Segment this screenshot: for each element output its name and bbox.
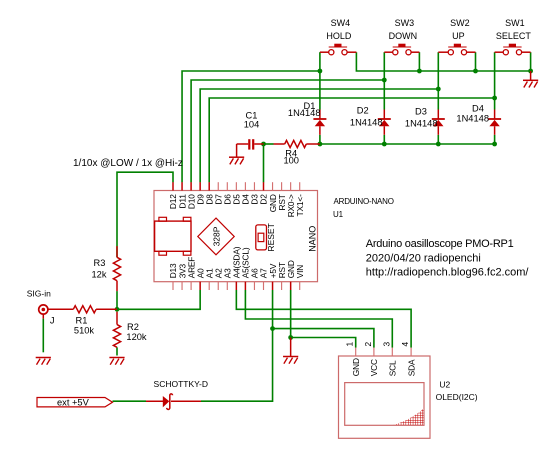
wire SW1 left stub xyxy=(495,51,504,53)
wire SW2 right stub xyxy=(467,51,476,53)
wire diode common rail to R4 xyxy=(320,143,495,145)
screen of U2 xyxy=(345,383,424,426)
svg-text:1/10x @LOW / 1x @Hi-z: 1/10x @LOW / 1x @Hi-z xyxy=(73,158,183,169)
pin stub bottom AREF xyxy=(190,282,192,290)
wire D11 to SW4 line xyxy=(182,71,320,182)
svg-text:R2: R2 xyxy=(127,322,139,332)
svg-text:U2: U2 xyxy=(439,380,450,390)
wire ext +5V tag to schottky xyxy=(113,400,147,402)
svg-text:D4: D4 xyxy=(472,104,484,114)
diode D1 1N4148 xyxy=(313,110,326,135)
diode D2 1N4148 xyxy=(378,110,391,135)
junction SW4/D11 node xyxy=(318,69,323,74)
svg-text:SCL: SCL xyxy=(388,360,398,376)
svg-text:104: 104 xyxy=(244,119,260,129)
junction GND/OLED-GND node xyxy=(288,335,293,340)
pin stub top D8 xyxy=(208,182,210,190)
diode SCHOTTKY-D xyxy=(146,394,201,410)
wire SW1 left terminal to D4 xyxy=(494,52,496,109)
wire SW2 left terminal to D3 xyxy=(437,52,439,109)
pin stub bottom A0 xyxy=(199,282,201,290)
pin stub top D6 xyxy=(226,182,228,190)
pin stub top GND xyxy=(272,182,274,190)
wire SW3 right stub xyxy=(411,51,419,53)
svg-text:TX1<-: TX1<- xyxy=(295,194,305,216)
svg-text:http://radiopench.blog96.fc2.c: http://radiopench.blog96.fc2.com/ xyxy=(366,267,530,279)
resistor R4 100 xyxy=(274,140,320,147)
junction SW2 right / ground rail xyxy=(473,69,478,74)
ground C1 xyxy=(229,157,244,164)
junction SW2/D9 node xyxy=(436,87,441,92)
connector J SIG-in jack xyxy=(39,305,48,319)
svg-text:2: 2 xyxy=(363,342,373,347)
pin stub top RST xyxy=(281,182,283,190)
junction D3/rail node xyxy=(436,142,441,147)
pin stub bottom GND xyxy=(290,282,292,290)
svg-text:SDA: SDA xyxy=(406,359,416,376)
resistor R1 510k xyxy=(48,306,117,313)
wire D4 anode to rail xyxy=(494,135,496,144)
ground J xyxy=(36,358,51,365)
pin stub top D4 xyxy=(244,182,246,190)
switch SW4 (HOLD) pushbutton xyxy=(329,44,347,55)
wire D3 anode to rail xyxy=(437,135,439,144)
pin stub bottom 3V3 xyxy=(181,282,183,290)
wire +5V pin to schottky diode xyxy=(201,290,273,401)
wire GND pin down xyxy=(290,290,292,338)
pin stub top RX0-&gt; xyxy=(290,182,292,190)
switch SW3 (DOWN) pushbutton xyxy=(393,44,411,55)
junction D4/rail node xyxy=(492,142,497,147)
USB connector of U1 xyxy=(155,217,191,255)
diode D3 1N4148 xyxy=(432,110,445,135)
wire SW4 right stub xyxy=(347,51,356,53)
switch SW2 (UP) pushbutton xyxy=(448,44,466,55)
wire A4 to OLED SDA xyxy=(236,290,411,348)
pin stub bottom A5(SCL) xyxy=(244,282,246,290)
wire SW3 right terminal to ground rail xyxy=(418,52,420,71)
wire R2 bottom to ground xyxy=(116,347,118,355)
svg-text:R1: R1 xyxy=(76,316,88,326)
pin stub U2 SDA xyxy=(410,348,412,356)
junction SW1/D8 node xyxy=(492,96,497,101)
svg-text:120k: 120k xyxy=(126,332,147,342)
capacitor C1 104 xyxy=(237,139,264,157)
junction D1/rail/R4 node xyxy=(318,142,323,147)
svg-text:OLED(I2C): OLED(I2C) xyxy=(436,392,478,402)
svg-text:SIG-in: SIG-in xyxy=(27,289,51,299)
ground rail of switches xyxy=(356,52,530,71)
svg-text:SELECT: SELECT xyxy=(496,31,532,41)
wire C1 junction to R4 xyxy=(264,143,274,145)
svg-text:ARDUINO-NANO: ARDUINO-NANO xyxy=(334,197,394,206)
wire SW1 right terminal to ground rail xyxy=(530,52,532,71)
wire D9 to SW2 line xyxy=(200,89,438,182)
wire D8 to SW1 line xyxy=(209,98,494,182)
pin stub bottom A6 xyxy=(253,282,255,290)
pin stub top D5 xyxy=(235,182,237,190)
pin stub U2 GND xyxy=(355,348,357,356)
pin stub top D3 xyxy=(253,182,255,190)
junction SIG node R1/R2/R3/A0 xyxy=(115,307,120,312)
svg-text:SW1: SW1 xyxy=(505,18,525,28)
junction C1/R4/D2 node xyxy=(261,142,266,147)
junction SW3/D10 node xyxy=(382,78,387,83)
svg-text:UP: UP xyxy=(452,31,465,41)
resistor R2 120k xyxy=(113,312,120,348)
svg-text:D2: D2 xyxy=(357,106,369,116)
svg-text:1N4148: 1N4148 xyxy=(456,114,489,124)
svg-text:GND: GND xyxy=(351,358,361,376)
pin stub top D12 xyxy=(172,182,174,190)
svg-text:Arduino oasilloscope PMO-RP1: Arduino oasilloscope PMO-RP1 xyxy=(366,238,514,250)
wire GND branch to OLED GND pin xyxy=(291,338,356,348)
wire SW4 left stub xyxy=(320,51,329,53)
wire C1 junction to pin D2 xyxy=(263,144,265,182)
pin stub bottom +5V xyxy=(272,282,274,290)
IC U1 ARDUINO-NANO body xyxy=(154,191,318,282)
resistor R3 12k xyxy=(113,246,120,291)
wire D2 anode to rail xyxy=(383,135,385,144)
pin stub bottom A1 xyxy=(208,282,210,290)
svg-text:HOLD: HOLD xyxy=(326,31,352,41)
wire SW2 left stub xyxy=(438,51,448,53)
pin stub top D10 xyxy=(190,182,192,190)
svg-text:U1: U1 xyxy=(333,210,344,219)
wire SW2 right terminal to ground rail xyxy=(475,52,477,71)
wire D1 anode to rail xyxy=(319,135,321,144)
pin stub top D11 xyxy=(181,182,183,190)
svg-text:RESET: RESET xyxy=(266,223,276,251)
display U2 OLED(I2C) body xyxy=(339,356,431,438)
ground at switch rail xyxy=(530,71,532,80)
wire +5V branch to OLED VCC xyxy=(273,329,374,348)
pin stub bottom A4(SDA) xyxy=(235,282,237,290)
svg-text:VIN: VIN xyxy=(295,265,305,279)
wire SIG node to A0 xyxy=(117,290,200,309)
svg-text:SW3: SW3 xyxy=(395,18,415,28)
svg-text:R3: R3 xyxy=(94,258,106,268)
svg-text:328P: 328P xyxy=(211,226,221,246)
svg-text:SCHOTTKY-D: SCHOTTKY-D xyxy=(154,379,208,389)
svg-text:1N4148: 1N4148 xyxy=(288,108,321,118)
power tag ext +5V xyxy=(37,398,113,407)
pin stub bottom A2 xyxy=(217,282,219,290)
wire D10 to SW3 line xyxy=(191,80,384,182)
junction +5V/VCC node xyxy=(270,326,275,331)
svg-text:SW4: SW4 xyxy=(331,18,351,28)
svg-text:VCC: VCC xyxy=(369,359,379,376)
junction SW1 right / ground rail xyxy=(528,69,533,74)
328P diamond of U1 xyxy=(198,218,234,255)
diode D4 1N4148 xyxy=(488,110,501,135)
ground R2 xyxy=(109,358,124,365)
svg-text:SW2: SW2 xyxy=(450,18,470,28)
pin stub bottom A7 xyxy=(263,282,265,290)
pin stub bottom RST xyxy=(281,282,283,290)
svg-text:1N4148: 1N4148 xyxy=(350,118,383,128)
wire SW4 left terminal to D1 xyxy=(319,52,321,109)
svg-text:100: 100 xyxy=(283,156,299,166)
svg-text:1N4148: 1N4148 xyxy=(405,119,438,129)
svg-text:ext +5V: ext +5V xyxy=(57,398,90,408)
pin stub bottom VIN xyxy=(299,282,301,290)
junction D2/rail node xyxy=(382,142,387,147)
svg-text:1: 1 xyxy=(345,342,355,347)
pin stub top TX1&lt;- xyxy=(299,182,301,190)
wire R3 bottom to SIG node xyxy=(116,291,118,309)
svg-text:12k: 12k xyxy=(92,270,107,280)
wire A5 to OLED SCL xyxy=(245,290,392,348)
wire SW3 left terminal to D2 xyxy=(383,52,385,109)
ground switches xyxy=(523,80,538,87)
pin stub U2 VCC xyxy=(373,348,375,356)
wire R3 top lead net xyxy=(116,246,118,257)
pin stub bottom D13 xyxy=(172,282,174,290)
ground arduino GND xyxy=(283,357,298,364)
svg-text:DOWN: DOWN xyxy=(389,31,418,41)
pin stub top D2 xyxy=(263,182,265,190)
svg-text:NANO: NANO xyxy=(307,226,317,252)
switch SW1 (SELECT) pushbutton xyxy=(503,44,521,55)
wire D12 to R3 net (1/10x attenuator drive) xyxy=(117,172,173,246)
svg-text:2020/04/20 radiopenchi: 2020/04/20 radiopenchi xyxy=(366,252,481,264)
svg-text:4: 4 xyxy=(400,342,410,347)
junction SW3 right / ground rail xyxy=(417,69,422,74)
wire SW3 left stub xyxy=(384,51,392,53)
pin stub U2 SCL xyxy=(391,348,393,356)
pin stub top D7 xyxy=(217,182,219,190)
RESET button of U1 xyxy=(256,225,267,250)
waveform in U2 screen xyxy=(394,409,424,425)
pin stub bottom A3 xyxy=(226,282,228,290)
wire SW1 right stub xyxy=(522,51,531,53)
svg-text:J: J xyxy=(50,316,55,326)
pin stub top D9 xyxy=(199,182,201,190)
wire J to ground xyxy=(42,319,44,353)
wire GND pin to ground symbol xyxy=(290,338,292,357)
svg-text:D3: D3 xyxy=(415,107,427,117)
svg-text:3: 3 xyxy=(381,342,391,347)
svg-text:510k: 510k xyxy=(74,326,95,336)
